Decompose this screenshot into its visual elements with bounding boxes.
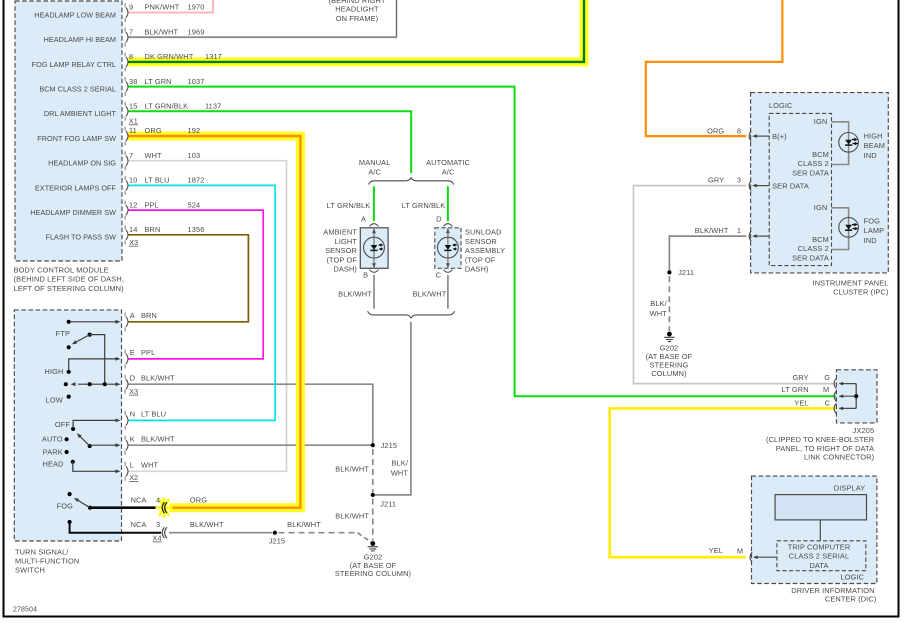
junction J215 bbox=[371, 443, 375, 447]
svg-text:ORG: ORG bbox=[190, 495, 207, 504]
svg-text:JX205: JX205 bbox=[853, 426, 875, 435]
wire BLK/WHT from switch pin D to junction J215 bbox=[128, 384, 373, 445]
svg-text:A/C: A/C bbox=[368, 168, 381, 177]
in-line connector highlight at fog switch bbox=[156, 498, 173, 518]
wire PNK/WHT 1970 from BCM pin 9 up to DRL module bbox=[128, 0, 213, 13]
svg-text:GRY: GRY bbox=[708, 176, 724, 185]
DIC display rectangle bbox=[775, 495, 866, 520]
svg-text:FOG LAMP RELAY CTRL: FOG LAMP RELAY CTRL bbox=[32, 60, 116, 69]
svg-text:LT BLU: LT BLU bbox=[145, 176, 170, 185]
svg-text:J211: J211 bbox=[678, 268, 694, 277]
svg-text:38: 38 bbox=[129, 77, 137, 86]
switch internal wire row E HIGH bbox=[69, 359, 118, 372]
dashed BLK/WHT wire J211 to ground G202 bbox=[372, 499, 374, 541]
svg-text:3: 3 bbox=[737, 176, 741, 185]
wire DK GRN/WHT 1317 core bbox=[128, 0, 584, 62]
svg-text:LT GRN/BLK: LT GRN/BLK bbox=[145, 102, 189, 111]
svg-text:FLASH TO PASS SW: FLASH TO PASS SW bbox=[46, 233, 117, 242]
svg-text:10: 10 bbox=[129, 176, 137, 185]
svg-text:IND: IND bbox=[864, 151, 877, 160]
sunload sensor connector cup D bbox=[443, 224, 452, 227]
svg-text:AUTOMATIC: AUTOMATIC bbox=[426, 158, 470, 167]
headlamp switch OFF contact row N bbox=[71, 427, 75, 431]
svg-text:HEADLAMP HI BEAM: HEADLAMP HI BEAM bbox=[44, 35, 116, 44]
svg-text:WHT: WHT bbox=[145, 151, 163, 160]
svg-text:BLK/WHT: BLK/WHT bbox=[335, 511, 369, 520]
svg-text:1970: 1970 bbox=[188, 3, 205, 12]
LOW contact bbox=[67, 395, 71, 399]
svg-text:MULTI-FUNCTION: MULTI-FUNCTION bbox=[15, 557, 79, 566]
svg-text:G: G bbox=[824, 373, 830, 382]
svg-text:COLUMN): COLUMN) bbox=[651, 369, 686, 378]
high beam indicator LED bbox=[839, 133, 859, 153]
instrument panel cluster (IPC) box bbox=[751, 93, 889, 273]
switch internal wire row K bbox=[90, 444, 118, 446]
split brace to manual / automatic A/C bbox=[369, 178, 454, 185]
svg-text:278504: 278504 bbox=[13, 607, 37, 614]
svg-text:LAMP: LAMP bbox=[864, 226, 885, 235]
ground G202 middle at base of steering column bbox=[370, 541, 375, 546]
junction J215 bottom bbox=[273, 531, 277, 535]
svg-text:ON FRAME): ON FRAME) bbox=[336, 14, 379, 23]
svg-text:3: 3 bbox=[156, 520, 160, 529]
svg-text:LINK CONNECTOR): LINK CONNECTOR) bbox=[804, 453, 874, 462]
ambient light sensor connector cup A bbox=[370, 224, 379, 227]
svg-text:DASH): DASH) bbox=[465, 265, 489, 274]
ambient light sensor box bbox=[360, 228, 388, 268]
sunload sensor assembly box (dashed) bbox=[435, 228, 461, 268]
svg-text:SUNLOAD: SUNLOAD bbox=[465, 228, 502, 237]
dashed BLK/WHT wire J211 to ground G202 right bbox=[668, 276, 670, 331]
wire GRY from IPC pin 3 to JX205 pin G bbox=[634, 186, 837, 384]
svg-text:D: D bbox=[130, 373, 135, 382]
wire LT GRN/BLK 1137 from BCM pin 15 to A/C split bbox=[128, 111, 411, 173]
turn signal / multi-function switch box bbox=[14, 310, 121, 541]
svg-text:AUTO: AUTO bbox=[42, 435, 63, 444]
svg-text:B(+): B(+) bbox=[772, 132, 787, 141]
svg-text:7: 7 bbox=[129, 27, 133, 36]
DIC pin M connector and arrow bbox=[750, 552, 752, 562]
svg-text:14: 14 bbox=[129, 225, 137, 234]
wire LT BLU 1872 from BCM pin 10 to switch pin N bbox=[128, 185, 275, 420]
svg-text:(TOP OF: (TOP OF bbox=[465, 255, 496, 264]
svg-text:8: 8 bbox=[129, 52, 133, 61]
wire LT GRN 1037 from BCM pin 38 to JX205 pin M bbox=[128, 87, 836, 397]
sensor internal wire with arrows bbox=[447, 228, 449, 268]
svg-text:192: 192 bbox=[188, 126, 201, 135]
svg-text:N: N bbox=[130, 410, 135, 419]
svg-text:BLK/WHT: BLK/WHT bbox=[335, 465, 369, 474]
svg-text:MANUAL: MANUAL bbox=[359, 158, 391, 167]
IPC pin 8 connector and arrow bbox=[749, 131, 751, 141]
svg-text:SENSOR: SENSOR bbox=[325, 246, 357, 255]
svg-text:LOGIC: LOGIC bbox=[769, 101, 793, 110]
driver information center (DIC) box bbox=[752, 476, 877, 583]
DIC trip computer logic box bbox=[777, 541, 866, 571]
svg-text:BCM CLASS 2 SERIAL: BCM CLASS 2 SERIAL bbox=[39, 85, 116, 94]
IPC logic inner box bbox=[769, 113, 831, 265]
svg-text:J211: J211 bbox=[380, 500, 396, 509]
svg-text:(BEHIND LEFT SIDE OF DASH,: (BEHIND LEFT SIDE OF DASH, bbox=[14, 275, 125, 284]
svg-text:BRN: BRN bbox=[145, 225, 161, 234]
svg-text:HEADLAMP DIMMER SW: HEADLAMP DIMMER SW bbox=[30, 208, 116, 217]
dashed BLK/WHT wire J215 to ground G202 bottom bbox=[279, 532, 358, 534]
svg-text:SENSOR: SENSOR bbox=[465, 237, 497, 246]
svg-text:BLK/WHT: BLK/WHT bbox=[287, 520, 321, 529]
switch NCA wire row 4 fog bbox=[90, 506, 161, 509]
junction J211 middle bbox=[371, 493, 375, 497]
svg-text:E: E bbox=[130, 348, 135, 357]
svg-text:CLASS 2: CLASS 2 bbox=[798, 244, 829, 253]
merge brace below sensors bbox=[368, 311, 455, 318]
svg-text:LOW: LOW bbox=[46, 396, 63, 405]
svg-text:LT GRN/BLK: LT GRN/BLK bbox=[402, 201, 446, 210]
svg-text:(AT BASE OF: (AT BASE OF bbox=[646, 352, 693, 361]
ground G202 right at base of steering column bbox=[667, 332, 672, 337]
body control module (BCM) connector box bbox=[15, 1, 122, 261]
sensor connector cup B bbox=[370, 270, 379, 273]
diagonal dashed wire into middle ground bbox=[358, 533, 372, 543]
svg-text:IND: IND bbox=[864, 236, 877, 245]
svg-text:CENTER (DIC): CENTER (DIC) bbox=[825, 595, 877, 604]
photodiode symbol bbox=[438, 237, 459, 258]
wire BLK/WHT from IPC pin 1 to J211 right bbox=[669, 236, 746, 270]
svg-text:HEADLAMP ON SIG: HEADLAMP ON SIG bbox=[48, 159, 116, 168]
svg-text:BLK/WHT: BLK/WHT bbox=[141, 434, 175, 443]
svg-text:7: 7 bbox=[129, 151, 133, 160]
fog lamp switch FOG arm bbox=[68, 492, 72, 496]
svg-text:BLK/WHT: BLK/WHT bbox=[190, 520, 224, 529]
wire PPL 524 from BCM pin 12 to switch pin E bbox=[128, 210, 263, 359]
svg-text:BRN: BRN bbox=[141, 311, 157, 320]
svg-text:ASSEMBLY: ASSEMBLY bbox=[465, 246, 505, 255]
wire BLK/WHT 1969 from BCM pin 7 to DRL module bbox=[128, 36, 397, 38]
svg-text:X2: X2 bbox=[129, 473, 138, 482]
svg-text:B: B bbox=[363, 270, 368, 279]
svg-text:J215: J215 bbox=[381, 441, 398, 450]
svg-text:FOG: FOG bbox=[864, 217, 881, 226]
svg-text:CLUSTER (IPC): CLUSTER (IPC) bbox=[833, 288, 888, 297]
svg-text:J215: J215 bbox=[269, 537, 286, 546]
svg-text:TURN SIGNAL/: TURN SIGNAL/ bbox=[15, 547, 69, 556]
svg-text:HEAD: HEAD bbox=[42, 460, 63, 469]
svg-text:X1: X1 bbox=[129, 117, 138, 126]
high beam indicator wiring bbox=[832, 122, 849, 132]
wire BLK/WHT from switch pin K to junction J215 bbox=[128, 444, 373, 446]
svg-text:IGN: IGN bbox=[814, 117, 828, 126]
svg-text:C: C bbox=[825, 398, 831, 407]
svg-text:AMBIENT: AMBIENT bbox=[323, 228, 357, 237]
svg-text:BLK/WHT: BLK/WHT bbox=[141, 373, 175, 382]
sensor internal wire with arrows bbox=[373, 228, 375, 268]
svg-text:GRY: GRY bbox=[792, 373, 808, 382]
svg-text:IGN: IGN bbox=[814, 203, 828, 212]
wire BLK/WHT from fog switch connector to J215 bottom bbox=[169, 532, 273, 534]
flash-to-pass switch FTP arm bbox=[88, 333, 92, 337]
DIC display to logic link bbox=[819, 520, 821, 541]
fog lamp indicator LED bbox=[839, 218, 859, 238]
JX205 pin G connector bbox=[834, 379, 836, 389]
svg-text:PANEL, TO RIGHT OF DATA: PANEL, TO RIGHT OF DATA bbox=[776, 444, 874, 453]
svg-text:NCA: NCA bbox=[131, 495, 147, 504]
junction J211 right bbox=[667, 270, 671, 274]
switch internal wire row D dimmer bbox=[64, 382, 68, 386]
svg-text:X3: X3 bbox=[129, 238, 138, 247]
wire ORG 192 core from BCM pin 11 to fog switch connector bbox=[128, 136, 300, 508]
svg-text:BLK/WHT: BLK/WHT bbox=[413, 290, 447, 299]
svg-text:YEL: YEL bbox=[709, 546, 723, 555]
svg-text:BCM: BCM bbox=[812, 150, 829, 159]
JX205 pin M connector bbox=[834, 391, 836, 401]
svg-text:1356: 1356 bbox=[188, 225, 205, 234]
svg-text:DISPLAY: DISPLAY bbox=[834, 483, 866, 492]
svg-text:A: A bbox=[361, 214, 366, 223]
svg-text:ORG: ORG bbox=[145, 126, 162, 135]
wire BLK/WHT from sensor C down bbox=[447, 275, 449, 309]
wire WHT 103 from BCM pin 7 to switch pin L bbox=[128, 161, 287, 472]
svg-text:STEERING COLUMN): STEERING COLUMN) bbox=[335, 569, 411, 578]
svg-text:TRIP COMPUTER: TRIP COMPUTER bbox=[788, 543, 851, 552]
svg-text:FRONT FOG LAMP SW: FRONT FOG LAMP SW bbox=[37, 134, 116, 143]
wire YEL from JX205 pin C to DIC pin M bbox=[610, 408, 836, 557]
svg-text:LOGIC: LOGIC bbox=[840, 573, 864, 582]
svg-text:WHT: WHT bbox=[391, 468, 409, 477]
in-line connector halves row 3 bbox=[165, 527, 167, 538]
svg-text:A/C: A/C bbox=[442, 168, 455, 177]
svg-text:CLASS 2 SERIAL: CLASS 2 SERIAL bbox=[789, 552, 849, 561]
svg-text:12: 12 bbox=[129, 200, 137, 209]
svg-text:PPL: PPL bbox=[145, 200, 159, 209]
svg-text:BLK/WHT: BLK/WHT bbox=[695, 226, 729, 235]
svg-text:BLK/: BLK/ bbox=[391, 459, 408, 468]
svg-text:FTP: FTP bbox=[56, 329, 70, 338]
wire BLK/WHT from sensor B down bbox=[373, 275, 375, 309]
svg-text:C: C bbox=[436, 270, 442, 279]
svg-text:LT GRN: LT GRN bbox=[145, 77, 172, 86]
svg-text:L: L bbox=[130, 460, 134, 469]
svg-text:1137: 1137 bbox=[205, 102, 221, 111]
svg-text:FOG: FOG bbox=[57, 501, 74, 510]
svg-text:DK GRN/WHT: DK GRN/WHT bbox=[145, 52, 194, 61]
JX205 internal bus with arrows bbox=[855, 384, 857, 409]
svg-text:SER DATA: SER DATA bbox=[772, 181, 809, 190]
svg-text:11: 11 bbox=[129, 126, 137, 135]
svg-text:1: 1 bbox=[737, 226, 741, 235]
svg-text:HIGH: HIGH bbox=[864, 132, 883, 141]
svg-text:PARK: PARK bbox=[43, 447, 63, 456]
DRL module box edge (behind right headlight on frame) bbox=[396, 0, 398, 37]
wire ORG 192 highlight band bbox=[128, 136, 300, 508]
svg-text:INSTRUMENT PANEL: INSTRUMENT PANEL bbox=[813, 278, 889, 287]
switch NCA wire row 3 bbox=[68, 520, 72, 524]
svg-text:HEADLIGHT: HEADLIGHT bbox=[335, 5, 379, 14]
svg-text:LT BLU: LT BLU bbox=[141, 410, 166, 419]
svg-text:CLASS 2: CLASS 2 bbox=[798, 159, 829, 168]
svg-text:ORG: ORG bbox=[707, 126, 724, 135]
svg-text:LT GRN/BLK: LT GRN/BLK bbox=[327, 201, 371, 210]
svg-text:OFF: OFF bbox=[55, 420, 71, 429]
svg-text:K: K bbox=[130, 434, 135, 443]
svg-text:4: 4 bbox=[156, 495, 160, 504]
svg-text:BODY CONTROL MODULE: BODY CONTROL MODULE bbox=[14, 266, 109, 275]
svg-text:STEERING: STEERING bbox=[650, 361, 689, 370]
svg-text:SER DATA: SER DATA bbox=[792, 253, 829, 262]
svg-text:SWITCH: SWITCH bbox=[15, 566, 45, 575]
svg-text:1317: 1317 bbox=[205, 52, 222, 61]
svg-text:BLK/: BLK/ bbox=[650, 299, 667, 308]
sensor connector cup C bbox=[443, 270, 452, 273]
switch pin connectors bbox=[126, 317, 128, 327]
svg-text:M: M bbox=[737, 547, 743, 556]
svg-text:M: M bbox=[823, 385, 829, 394]
svg-text:15: 15 bbox=[129, 102, 137, 111]
wire BRN 1356 from BCM pin 14 to switch pin A bbox=[128, 235, 248, 322]
svg-text:A: A bbox=[130, 311, 135, 320]
svg-text:DASH): DASH) bbox=[333, 265, 357, 274]
svg-text:524: 524 bbox=[188, 200, 201, 209]
svg-text:BEAM: BEAM bbox=[864, 141, 885, 150]
svg-text:LIGHT: LIGHT bbox=[335, 237, 358, 246]
svg-text:BLK/WHT: BLK/WHT bbox=[338, 290, 372, 299]
svg-text:LT GRN: LT GRN bbox=[782, 385, 809, 394]
AUTO contact bbox=[65, 437, 69, 441]
wire DK GRN/WHT 1317 highlight band bbox=[128, 0, 584, 62]
svg-text:EXTERIOR LAMPS OFF: EXTERIOR LAMPS OFF bbox=[35, 183, 117, 192]
svg-text:8: 8 bbox=[737, 126, 741, 135]
svg-text:1969: 1969 bbox=[188, 27, 205, 36]
svg-text:DRL AMBIENT LIGHT: DRL AMBIENT LIGHT bbox=[44, 109, 117, 118]
svg-text:1037: 1037 bbox=[188, 77, 205, 86]
svg-text:SER DATA: SER DATA bbox=[792, 168, 829, 177]
wire ORG from top right down to IPC pin 8 B+ bbox=[646, 0, 783, 136]
svg-text:(TOP OF: (TOP OF bbox=[326, 255, 357, 264]
fog lamp indicator wiring bbox=[832, 208, 849, 217]
svg-text:9: 9 bbox=[129, 3, 133, 12]
in-line connector halves row 4 bbox=[165, 502, 167, 513]
IPC pin 3 connector and arrow bbox=[749, 181, 751, 191]
svg-text:HIGH: HIGH bbox=[45, 367, 64, 376]
svg-text:HEADLAMP LOW BEAM: HEADLAMP LOW BEAM bbox=[34, 10, 116, 19]
svg-text:PPL: PPL bbox=[141, 348, 155, 357]
svg-text:WHT: WHT bbox=[141, 460, 159, 469]
BCM pin connectors bbox=[126, 7, 128, 17]
svg-text:NCA: NCA bbox=[131, 520, 147, 529]
photodiode symbol bbox=[364, 237, 385, 258]
svg-text:PNK/WHT: PNK/WHT bbox=[145, 3, 180, 12]
svg-text:WHT: WHT bbox=[650, 309, 668, 318]
splice pack JX205 box bbox=[836, 370, 877, 423]
svg-text:BCM: BCM bbox=[812, 235, 829, 244]
headlamp switch selector arm bbox=[88, 444, 92, 448]
JX205 pin C connector bbox=[834, 403, 836, 413]
svg-text:YEL: YEL bbox=[794, 398, 808, 407]
svg-text:X3: X3 bbox=[129, 387, 138, 396]
svg-text:X4: X4 bbox=[153, 534, 162, 543]
dashed BLK/WHT wire J215 to J211 bbox=[372, 449, 374, 493]
switch internal wire row A bbox=[69, 321, 118, 323]
svg-text:1872: 1872 bbox=[188, 176, 205, 185]
svg-text:BLK/WHT: BLK/WHT bbox=[145, 27, 179, 36]
IPC pin 1 connector and arrow bbox=[749, 231, 751, 241]
wire LT GRN/BLK to sunload sensor bbox=[447, 186, 449, 221]
svg-text:103: 103 bbox=[188, 151, 201, 160]
wire BLK/WHT from sensors merge down to J211 bbox=[375, 322, 411, 495]
svg-text:(CLIPPED TO KNEE-BOLSTER: (CLIPPED TO KNEE-BOLSTER bbox=[766, 435, 874, 444]
svg-text:DATA: DATA bbox=[809, 561, 828, 570]
svg-text:LEFT OF STEERING COLUMN): LEFT OF STEERING COLUMN) bbox=[14, 284, 124, 293]
wire LT GRN/BLK to ambient light sensor bbox=[373, 186, 375, 221]
PARK contact bbox=[65, 450, 69, 454]
HEAD contact row L bbox=[71, 460, 75, 464]
svg-text:D: D bbox=[436, 214, 441, 223]
